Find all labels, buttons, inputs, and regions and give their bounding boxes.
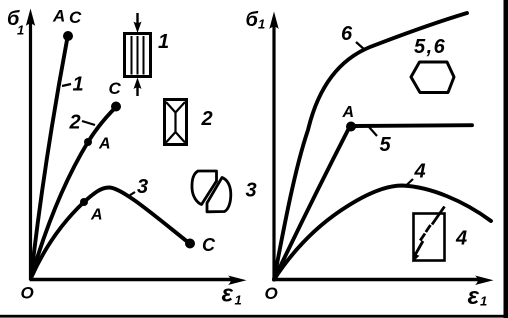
tick to label 4: [405, 179, 413, 187]
svg-text:ε: ε: [468, 283, 480, 310]
specimen icon 3: sheared cylinder lower-right half: [207, 178, 231, 212]
svg-text:5,6: 5,6: [414, 36, 446, 58]
end dot C of curve 3: [185, 239, 195, 249]
svg-text:4: 4: [455, 228, 467, 250]
icon 1 bottom compression arrow: [136, 85, 138, 96]
svg-text:C: C: [202, 235, 216, 255]
icon 4 slip slash upper: [426, 225, 431, 232]
curve 2: [31, 107, 116, 278]
svg-text:3: 3: [137, 176, 148, 198]
specimen icon 2: prism bar: [165, 100, 187, 145]
point A dot on curve 3: [80, 198, 88, 206]
svg-text:2: 2: [69, 112, 81, 134]
svg-text:1: 1: [17, 23, 24, 38]
tick to label 5: [369, 127, 377, 136]
knee dot A on curve 5: [346, 122, 356, 132]
svg-text:4: 4: [414, 161, 426, 183]
svg-text:б: б: [246, 9, 259, 31]
svg-text:1: 1: [258, 17, 265, 32]
svg-text:6: 6: [341, 23, 353, 45]
right x-axis: [273, 278, 481, 281]
curve 6: [274, 13, 467, 280]
svg-text:ε: ε: [222, 281, 234, 308]
scan frame right border: [504, 0, 508, 318]
scan frame bottom border: [0, 315, 508, 318]
left x-axis: [30, 278, 234, 281]
tick to label 3: [127, 192, 135, 197]
specimen icon 4: rectangle with slip plane: [414, 214, 445, 261]
end dot C of curve 2: [111, 102, 121, 112]
svg-text:2: 2: [201, 108, 213, 130]
curve 3: [31, 188, 189, 279]
icon 4 slip line bottom segment with arrow: [415, 241, 424, 256]
tick to label 1: [62, 84, 71, 86]
curve 5: [274, 125, 472, 279]
svg-text:O: O: [265, 284, 278, 303]
svg-text:1: 1: [480, 294, 487, 309]
svg-text:1: 1: [73, 74, 84, 96]
point A dot on curve 2: [84, 138, 92, 146]
specimen icon 1: rectangle with fibers: [125, 34, 151, 77]
tick to label 2: [82, 121, 95, 125]
svg-text:O: O: [21, 284, 34, 303]
svg-text:A: A: [98, 136, 111, 153]
curve 4: [274, 186, 491, 280]
svg-text:C: C: [109, 79, 122, 98]
left y-axis arrowhead: [26, 9, 35, 27]
icon 1 top compression arrow: [136, 13, 138, 25]
svg-text:3: 3: [246, 180, 257, 202]
point A,C end dot of curve 1: [63, 31, 73, 41]
icon 4 slip line top segment: [432, 207, 445, 225]
svg-text:1: 1: [235, 293, 242, 308]
svg-text:A: A: [342, 104, 355, 121]
left y-axis: [29, 22, 32, 280]
svg-text:C: C: [69, 8, 82, 27]
right y-axis: [272, 25, 275, 280]
icon 4 slip slash lower: [420, 234, 425, 241]
svg-text:A: A: [52, 7, 65, 26]
right x-axis arrowhead: [475, 276, 494, 286]
left x-axis arrowhead: [228, 276, 247, 286]
right y-axis arrowhead: [269, 12, 278, 30]
hexagon specimen icon 5,6: [411, 62, 454, 93]
svg-text:1: 1: [158, 31, 169, 53]
curve 1: [31, 40, 67, 278]
specimen icon 3: sheared cylinder upper-left half: [192, 171, 217, 205]
svg-text:A: A: [90, 207, 103, 224]
tick to label 6: [356, 42, 365, 50]
svg-text:5: 5: [380, 134, 392, 156]
